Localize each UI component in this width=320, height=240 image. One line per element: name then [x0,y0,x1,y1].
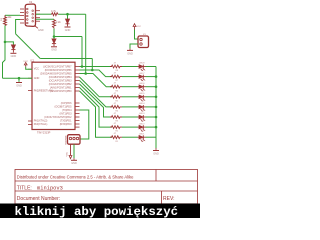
resistor R6 [110,83,122,93]
svg-text:GND: GND [34,77,40,80]
svg-text:PA2(RESET/dW): PA2(RESET/dW) [34,89,53,92]
diode D3 [52,37,56,47]
title block frame [15,170,198,204]
svg-text:VCC: VCC [67,151,69,156]
ground at LED bus [153,148,159,155]
diode D1 [11,45,15,53]
junction node bus row 7 [155,126,158,129]
svg-text:LED1: LED1 [139,133,145,135]
ground below D2 [65,27,71,32]
LED LED4 [138,103,146,111]
IC1 right pin stubs top group [75,67,80,92]
svg-text:GND: GND [65,29,71,32]
junction node bus row 3 [155,85,158,88]
resistor R4 [110,103,122,113]
wire drop to PB5 [85,14,87,73]
wire to SCK drop [54,36,82,38]
wire drop to PB6 [91,59,93,71]
wire R1 to LED [122,136,138,138]
resistor R3 [53,19,62,28]
wire LED3 to bus [146,116,157,118]
svg-text:MINIPWR: MINIPWR [66,135,68,144]
connector X2 [20,0,40,26]
supply VCC arrow at X1 [133,24,141,30]
svg-text:LED5: LED5 [139,93,145,95]
wire X2 pin to R3 [36,18,54,20]
svg-text:(AIN0/PCINT0)PB0: (AIN0/PCINT0)PB0 [50,90,72,93]
junction node PB5 [84,72,87,75]
wire GND net to IC1 [3,77,33,79]
wire R6 to LED [122,86,138,88]
wire VCC to X1 [135,30,139,40]
wire PB2 to LED row 6 [80,84,113,117]
junction node D2 branch [66,13,69,16]
wire LED4 to bus [146,106,157,108]
resistor R5 [110,93,122,103]
IC IC1 ATtiny2313 [30,59,75,135]
svg-text:GND: GND [11,55,17,58]
supply VCC arrow at IC1 [23,61,28,67]
svg-text:VCC: VCC [34,67,39,70]
wire drop to PB7 [81,37,83,67]
shell ground of X2 [35,26,44,32]
caption bar [0,204,200,219]
wire PB7 to LED row 1 [80,66,113,68]
junction node D1 branch [4,41,7,44]
svg-text:LED7: LED7 [139,73,145,75]
junction node bus row 4 [155,96,158,99]
wire PB3 to LED row 5 [80,81,113,107]
junction node PB7 [81,65,84,68]
junction node bus row 5 [155,106,158,109]
wire LED6 to bus [146,86,157,88]
junction node GND branch [18,77,21,80]
LED LED2 [138,123,146,131]
wire LED2 to bus [146,126,157,128]
wire LED5 to bus [146,96,157,98]
wire R2 to MOSI drop [59,13,86,15]
wire R5 to LED [122,96,138,98]
svg-text:GND: GND [153,152,159,155]
svg-text:2.2k: 2.2k [56,21,61,24]
connector X1 [138,34,149,48]
svg-text:LED8: LED8 [139,63,145,65]
LED LED1 [138,133,146,141]
svg-text:LED3: LED3 [139,113,145,115]
ground below D1 [10,53,16,58]
svg-text:GND: GND [51,49,57,52]
wire LED1 to bus [146,136,157,138]
svg-text:GND: GND [71,162,77,165]
LED LED8 [138,63,146,71]
wire PB6 to LED row 2 [80,70,113,77]
svg-text:VCC: VCC [136,26,141,28]
svg-text:VCC: VCC [23,61,28,63]
wire VCC arrow to IC1 [26,67,32,69]
svg-text:TINY2313P: TINY2313P [37,130,51,134]
ground at IC1 GND [16,78,22,87]
svg-text:GND: GND [16,84,22,87]
wire LED cathode bus [155,67,157,149]
svg-text:LED6: LED6 [139,83,145,85]
resistor R2 4.7k [51,9,59,16]
svg-text:LED4: LED4 [139,103,145,105]
wire PB4 to LED row 4 [80,77,113,97]
wire serial net to R1 [5,14,20,16]
IC1 right pin stubs bottom group [75,103,80,127]
svg-text:4.7k: 4.7k [51,9,57,13]
ground at SV1 [71,158,77,165]
junction node PB6 [91,69,94,72]
wire R8 to LED [122,66,138,68]
wire R7 to LED [122,76,138,78]
wire R3 down [53,29,55,37]
wire R1 down to IC GND net [3,25,6,78]
diode D2 [65,14,69,26]
supply VCC arrow down at SV1 [67,144,72,158]
svg-text:LED2: LED2 [139,123,145,125]
wire PB5 to LED row 3 [80,74,113,87]
svg-text:minipov3: minipov3 [37,186,63,192]
svg-text:(RXD)PD0: (RXD)PD0 [60,123,72,126]
wire X1 pin 2 to ground [130,44,138,49]
svg-text:kliknij aby powiększyć: kliknij aby powiększyć [15,205,179,218]
svg-text:Distributed under Creative Com: Distributed under Creative Commons 2.5 -… [17,174,134,179]
wire PB1 to LED row 7 [80,88,113,128]
wire to D1 [5,42,13,45]
LED LED6 [138,83,146,91]
resistor R8 [110,63,122,73]
wire R4 to LED [122,106,138,108]
ground below D3 [51,47,57,52]
svg-text:IC1: IC1 [30,59,35,63]
svg-text:Document Number:: Document Number: [17,196,60,202]
wire X2 pin to diagonal [16,20,20,34]
LED LED7 [138,73,146,81]
resistor R3 [110,113,122,123]
wire LED8 to bus [146,66,157,68]
svg-text:GND: GND [38,29,44,32]
wire LED7 to bus [146,76,157,78]
svg-text:PA0(XTAL1): PA0(XTAL1) [34,123,48,126]
wire R2 to LED [122,126,138,128]
resistor R7 [110,73,122,83]
IC1 pin name labels [34,65,72,126]
LED LED5 [138,93,146,101]
resistor R1 [110,133,122,143]
wire PB0 to LED row 8 [80,91,113,137]
IC1 left pin stubs [28,69,32,124]
ground at X1 [127,49,133,56]
wire diagonal to IC area [16,34,41,59]
junction node bus row 6 [155,116,158,119]
resistor R1 [1,15,12,25]
svg-text:REV:: REV: [163,196,174,202]
wire SV1 pin 2 to ground [73,144,75,158]
wire R3 to LED [122,116,138,118]
wire X2 to R2 [36,13,51,15]
svg-text:X2: X2 [29,0,33,4]
wire PD4 to connector SV1 [80,110,89,139]
junction node bus row 2 [155,75,158,78]
connector SV1 [66,135,81,145]
svg-text:GND: GND [127,52,133,55]
LED LED3 [138,113,146,121]
junction node D3 branch [53,35,56,38]
wire horizontal above IC [40,58,92,60]
resistor R2 [110,123,122,133]
svg-text:TITLE:: TITLE: [17,186,32,192]
